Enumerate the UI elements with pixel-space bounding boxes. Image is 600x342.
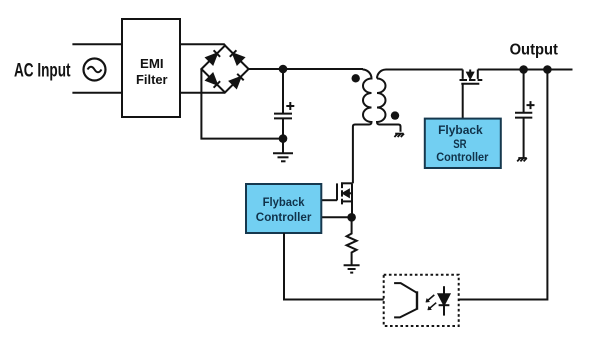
ground output chassis (517, 158, 527, 161)
svg-text:Output: Output (510, 41, 559, 58)
svg-text:Controller: Controller (436, 150, 488, 164)
capacitor C1 bulk (274, 69, 294, 139)
bridge rectifier BR1 (201, 46, 248, 93)
diode D3 (206, 74, 220, 88)
transformer T1 primary phase dot (352, 74, 360, 82)
diode D4 (230, 74, 244, 88)
wire secondary to SR fet (386, 69, 463, 71)
wire Q2 gate to SR controller (462, 84, 464, 119)
MOSFET Q1 primary switch (337, 182, 352, 217)
diode D1 (206, 50, 220, 64)
diode D2 (230, 50, 244, 64)
node output cap (519, 65, 528, 74)
transformer T1 secondary winding (377, 70, 401, 132)
capacitor C2 output (515, 70, 535, 158)
resistor R1 sense (347, 217, 357, 264)
wire current sense from controller (321, 216, 351, 218)
wire feedback to optocoupler (284, 233, 384, 300)
wire EMI to bridge top (180, 44, 225, 45)
svg-text:Controller: Controller (256, 210, 312, 224)
LED (439, 286, 450, 315)
node bulk cap top (279, 65, 288, 74)
Flyback Controller block (246, 184, 321, 233)
transformer T1 secondary phase dot (391, 111, 399, 119)
Flyback SR Controller block (425, 119, 501, 168)
wire input top (72, 43, 122, 45)
wire primary to Q1 drain (352, 127, 354, 184)
ground R1 (344, 265, 360, 272)
node feedback tap (543, 65, 552, 74)
MOSFET Q2 SR (460, 70, 483, 84)
svg-text:Flyback: Flyback (263, 195, 305, 209)
ground secondary chassis (394, 134, 404, 137)
svg-text:AC Input: AC Input (14, 60, 71, 82)
ground primary bulk (273, 139, 293, 162)
wire EMI to bridge bottom (180, 92, 225, 94)
wire bridge negative return (201, 69, 283, 139)
node Q1 source (347, 213, 356, 222)
transformer T1 primary winding (353, 70, 372, 127)
AC source V1 (84, 59, 106, 81)
optocoupler U4 (384, 275, 459, 326)
node bulk cap bottom (279, 134, 288, 143)
wire DC+ rail (249, 68, 363, 70)
wire gate from controller (321, 199, 337, 201)
svg-text:SR: SR (453, 137, 467, 151)
wire output rail (478, 69, 573, 71)
svg-text:Flyback: Flyback (438, 123, 483, 137)
wire input bottom (72, 92, 122, 94)
phototransistor (394, 283, 417, 317)
svg-text:Filter: Filter (136, 72, 168, 87)
wire optocoupler to output rail (459, 70, 548, 300)
light arrows (426, 295, 436, 310)
svg-text:EMI: EMI (140, 56, 164, 71)
EMI filter block (122, 19, 180, 117)
